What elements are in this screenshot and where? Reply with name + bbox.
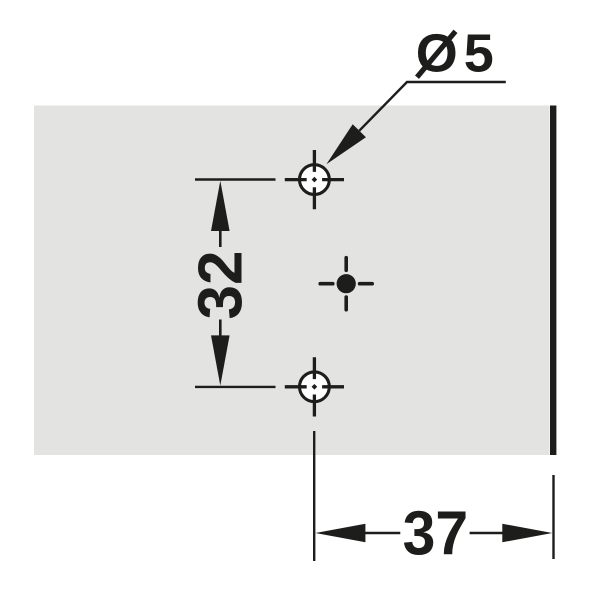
dimension 32 line lower stub [219,320,222,338]
dimension 37 arrow left [315,524,365,543]
diameter label Ø5 [416,24,500,84]
dimension 32 arrow up [211,181,230,231]
svg-text:O5: O5 [416,24,500,84]
svg-text:37: 37 [403,498,469,568]
leader line for diameter label [359,82,506,131]
drill hole H2 (bottom) [285,357,344,416]
dimension 32 extension line top [195,178,276,180]
dimension 37 extension line left [313,431,315,561]
panel (mounting surface) [34,106,550,456]
leader arrowhead [326,124,366,164]
svg-text:32: 32 [186,251,255,320]
dimension 37 label [403,498,469,568]
dimension 32 label [186,251,255,320]
dimension 37 line right stub [470,532,505,535]
drill hole H1 (top) [285,150,344,209]
dimension 32 line upper stub [219,230,222,247]
cup center marker [320,258,372,310]
dimension 37 arrow right [502,524,552,543]
panel front edge line [550,106,556,456]
dimension 32 extension line bottom [195,386,276,388]
dimension 37 line left stub [364,532,400,535]
dimension 32 arrow down [211,335,230,385]
dimension 37 extension line right [552,475,554,559]
